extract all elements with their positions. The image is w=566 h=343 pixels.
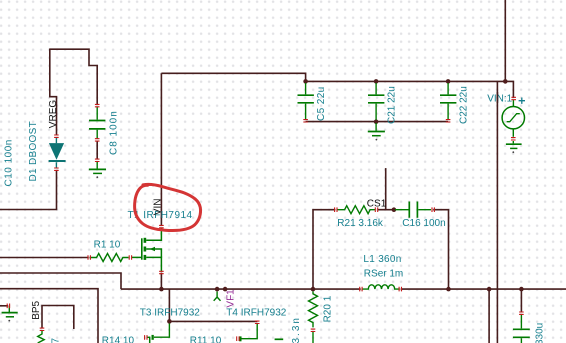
wire R1 gate feed	[0, 257, 89, 259]
junction CS1 node R21/C16	[392, 207, 397, 212]
pin R20 bottom	[311, 329, 316, 331]
wire top bus	[161, 73, 513, 98]
svg-text:BP5: BP5	[31, 300, 42, 319]
pin T1 source	[159, 271, 164, 273]
wire left ground stub	[0, 305, 8, 307]
wire left step to bus	[0, 273, 121, 289]
wire CS1 stub	[385, 168, 387, 210]
pin C8 top	[95, 104, 100, 106]
voltage source VIN:1	[502, 100, 524, 149]
pin C16 right	[432, 207, 434, 212]
svg-text:C21 22u: C21 22u	[387, 86, 398, 124]
transistor T3 partial	[147, 324, 170, 343]
junction output branch down	[487, 287, 492, 292]
pin VIN source plus	[511, 97, 516, 99]
svg-text:R20 1: R20 1	[322, 295, 333, 322]
wire main lower bus right of L1	[401, 288, 566, 290]
capacitor C8	[89, 107, 105, 139]
wire main lower bus left of L1	[121, 288, 361, 290]
inductor L1	[362, 285, 400, 289]
transistor T1	[132, 228, 161, 272]
junction C16 branch / output bus	[446, 287, 451, 292]
probe fork VF1	[214, 292, 221, 301]
svg-text:CS1: CS1	[367, 198, 387, 209]
pin T4 drain	[255, 321, 260, 323]
wire 330u cap branch	[520, 289, 522, 312]
plus sign	[519, 98, 525, 104]
wire VREG left branch	[50, 49, 57, 136]
pin R21 right	[375, 207, 377, 212]
svg-text:VREG: VREG	[48, 100, 59, 129]
junction C22 top / input bus	[446, 79, 451, 84]
resistor R20	[309, 291, 318, 343]
junction T3 drain	[167, 319, 172, 324]
junction C21 top / input bus	[374, 79, 379, 84]
svg-text:C22 22u: C22 22u	[459, 86, 470, 124]
pin 330u cap top	[519, 312, 524, 314]
junction VF1 probe / SW bus	[215, 287, 220, 292]
pin T3 gate	[145, 335, 147, 340]
wire long vertical right	[496, 81, 498, 343]
resistor below BP5	[38, 331, 45, 343]
svg-text:VF1: VF1	[225, 289, 236, 308]
svg-text:D1 DBOOST: D1 DBOOST	[28, 121, 39, 182]
svg-text:C5 22u: C5 22u	[316, 86, 327, 121]
wire T3 drain branch	[168, 289, 170, 321]
svg-text:R11 10: R11 10	[190, 335, 222, 343]
svg-text:3.3n: 3.3n	[291, 316, 302, 343]
svg-text:T3 IRFH7932: T3 IRFH7932	[140, 308, 200, 319]
svg-text:C16 100n: C16 100n	[402, 218, 445, 229]
svg-text:VIN: VIN	[152, 199, 163, 216]
pin D1 anode	[54, 135, 59, 137]
pin L1 right	[399, 287, 401, 292]
svg-text:R14 10: R14 10	[102, 335, 135, 343]
capacitor C5	[298, 83, 314, 120]
pin L1 left	[360, 287, 362, 292]
wire T3 to T4	[169, 320, 257, 322]
pin R1 left	[88, 255, 90, 260]
wire top edge vertical	[504, 0, 506, 81]
ground left edge	[2, 306, 18, 317]
ground under C8	[89, 162, 106, 174]
pin C8 bottom	[95, 139, 100, 141]
junction C21 bottom rail	[374, 119, 379, 124]
svg-text:T4 IRFH7932: T4 IRFH7932	[226, 308, 286, 319]
annotation red ellipse	[135, 184, 201, 230]
wire R21 loop left	[313, 210, 335, 289]
capacitor 330u	[513, 315, 530, 343]
junction T1 source / SW bus	[159, 287, 164, 292]
pin D1 cathode	[54, 168, 59, 170]
resistor R1	[90, 254, 129, 262]
svg-text:7: 7	[51, 338, 62, 343]
pin T1 drain	[159, 225, 164, 227]
svg-text:R1 10: R1 10	[94, 240, 121, 251]
wire left edge to corner down	[0, 289, 98, 343]
svg-text:VIN:1: VIN:1	[487, 94, 512, 105]
junction R20-R21 / SW bus	[311, 287, 316, 292]
pin C5 bottom	[303, 120, 308, 122]
wire T1 source to bus	[160, 273, 162, 290]
junction input bus / top feed	[503, 79, 508, 84]
diode D1 DBOOST	[49, 138, 66, 168]
junction C5 top / input bus	[303, 79, 308, 84]
wire T1 drain vertical	[160, 73, 162, 225]
svg-text:C8 100n: C8 100n	[109, 110, 120, 155]
wire BP5 net	[42, 306, 74, 330]
wire caps bottom rail	[306, 121, 449, 123]
pin C22 bottom	[446, 120, 451, 122]
wire diode D1 to left edge	[0, 170, 57, 209]
pin R1 right / T1 gate	[129, 255, 131, 260]
capacitor C22	[440, 83, 456, 120]
capacitor C16	[395, 202, 431, 218]
wire VREG loop top	[50, 49, 97, 104]
svg-text:C10 100n: C10 100n	[3, 139, 14, 186]
svg-text:R21 3.16k: R21 3.16k	[337, 218, 384, 229]
wire C16 right to bus	[433, 210, 448, 289]
svg-text:330u: 330u	[535, 323, 546, 343]
pin BP5 resistor	[40, 328, 45, 330]
junction 330u cap / output bus	[519, 287, 524, 292]
capacitor 3.3n plate	[275, 338, 284, 340]
wire VOUT branch down	[488, 289, 490, 343]
svg-text:L1 360n: L1 360n	[363, 254, 401, 265]
transistor T4 partial	[240, 324, 258, 339]
svg-text:RSer 1m: RSer 1m	[364, 268, 403, 279]
ground under C21	[368, 123, 385, 136]
wire R21 to C16 junction	[378, 209, 395, 211]
pin ground left	[7, 304, 9, 309]
wire C8 to ground	[96, 141, 98, 159]
pin T4 gate	[237, 336, 239, 341]
pin R21 left	[335, 207, 337, 212]
resistor R21	[337, 206, 375, 214]
capacitor C21	[368, 83, 384, 120]
pin ground C8	[95, 159, 100, 161]
pin VIN source minus	[511, 138, 516, 140]
wire overlay on VIN:1 label	[496, 92, 498, 103]
junction T4 drain / SW bus	[223, 287, 228, 292]
